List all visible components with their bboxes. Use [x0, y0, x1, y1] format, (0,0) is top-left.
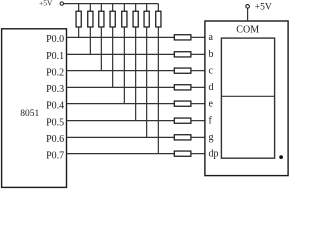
svg-text:d: d	[209, 82, 214, 93]
svg-text:COM: COM	[236, 25, 259, 36]
pull-up resistor R6	[133, 11, 138, 27]
7-segment display DS1 (common anode)	[205, 21, 288, 176]
wire +5V rail to resistor R7	[146, 4, 148, 12]
wire resistor R6 to node P0.5	[135, 27, 137, 121]
wire resistor R1 to node P0.0	[78, 27, 80, 37]
wire R15 to display pin g	[191, 136, 205, 138]
wire resistor R8 to node P0.7	[157, 27, 159, 154]
wire R11 to display pin c	[191, 70, 205, 72]
wire P0.5 row	[67, 120, 175, 122]
wire R9 to display pin a	[191, 36, 205, 38]
pull-up resistor R8	[156, 11, 161, 27]
pull-up resistor R3	[99, 11, 104, 27]
pull-up resistor R7	[144, 11, 149, 27]
pull-up resistor R4	[110, 11, 115, 27]
svg-text:a: a	[209, 32, 214, 43]
wire P0.7 row	[67, 153, 175, 155]
+5V terminal (left)	[60, 2, 63, 5]
wire +5V to COM	[247, 8, 249, 21]
wire +5V rail to resistor R6	[135, 4, 137, 12]
wire P0.6 row	[67, 136, 175, 138]
wire +5V rail to resistor R1	[78, 4, 80, 12]
svg-text:e: e	[209, 98, 214, 109]
wire resistor R7 to node P0.6	[146, 27, 148, 137]
pull-up resistor R1	[76, 11, 81, 27]
svg-text:P0.4: P0.4	[46, 100, 64, 111]
wire +5V rail to resistor R3	[100, 4, 102, 12]
series resistor R13	[174, 101, 191, 106]
svg-text:8051: 8051	[20, 109, 39, 119]
pull-up resistor R5	[122, 11, 127, 27]
svg-text:+5V: +5V	[255, 2, 272, 12]
pull-up resistor R2	[88, 11, 93, 27]
svg-text:P0.3: P0.3	[46, 84, 64, 95]
wire +5V rail to resistor R2	[89, 4, 91, 12]
svg-text:P0.2: P0.2	[46, 67, 64, 78]
wire P0.0 row	[67, 36, 175, 38]
wire R13 to display pin e	[191, 103, 205, 105]
wire +5V rail to resistor R5	[123, 4, 125, 12]
svg-text:P0.0: P0.0	[46, 34, 64, 45]
wire resistor R5 to node P0.4	[123, 27, 125, 104]
wire P0.3 row	[67, 86, 175, 88]
wire R14 to display pin f	[191, 120, 205, 122]
series resistor R12	[174, 85, 191, 90]
wire resistor R4 to node P0.3	[112, 27, 114, 87]
series resistor R16	[174, 151, 191, 156]
svg-text:P0.6: P0.6	[46, 134, 64, 145]
wire P0.2 row	[67, 70, 175, 72]
svg-text:dp: dp	[209, 148, 219, 159]
digit window divider	[221, 95, 274, 97]
+5V terminal (right)	[246, 5, 250, 9]
svg-text:c: c	[209, 65, 214, 76]
wire R16 to display pin dp	[191, 153, 205, 155]
series resistor R11	[174, 68, 191, 73]
series resistor R10	[174, 52, 191, 57]
wire +5V rail to resistor R4	[112, 4, 114, 12]
wire R10 to display pin b	[191, 53, 205, 55]
wire resistor R2 to node P0.1	[89, 27, 91, 54]
svg-text:+5V: +5V	[39, 0, 53, 8]
series resistor R14	[174, 118, 191, 123]
svg-text:P0.7: P0.7	[46, 150, 64, 161]
wire R12 to display pin d	[191, 86, 205, 88]
display digit window	[221, 38, 274, 158]
svg-text:P0.1: P0.1	[46, 51, 64, 62]
wire resistor R3 to node P0.2	[100, 27, 102, 71]
wire P0.4 row	[67, 103, 175, 105]
wire P0.1 row	[67, 53, 175, 55]
svg-text:g: g	[209, 132, 214, 143]
series resistor R9	[174, 35, 191, 40]
wire +5V rail to resistor R8	[157, 4, 159, 12]
series resistor R15	[174, 135, 191, 140]
microcontroller U1 8051	[2, 29, 67, 188]
decimal point dp	[279, 155, 283, 159]
wire +5V rail	[64, 3, 159, 5]
svg-text:b: b	[209, 49, 214, 60]
svg-text:P0.5: P0.5	[46, 117, 64, 128]
